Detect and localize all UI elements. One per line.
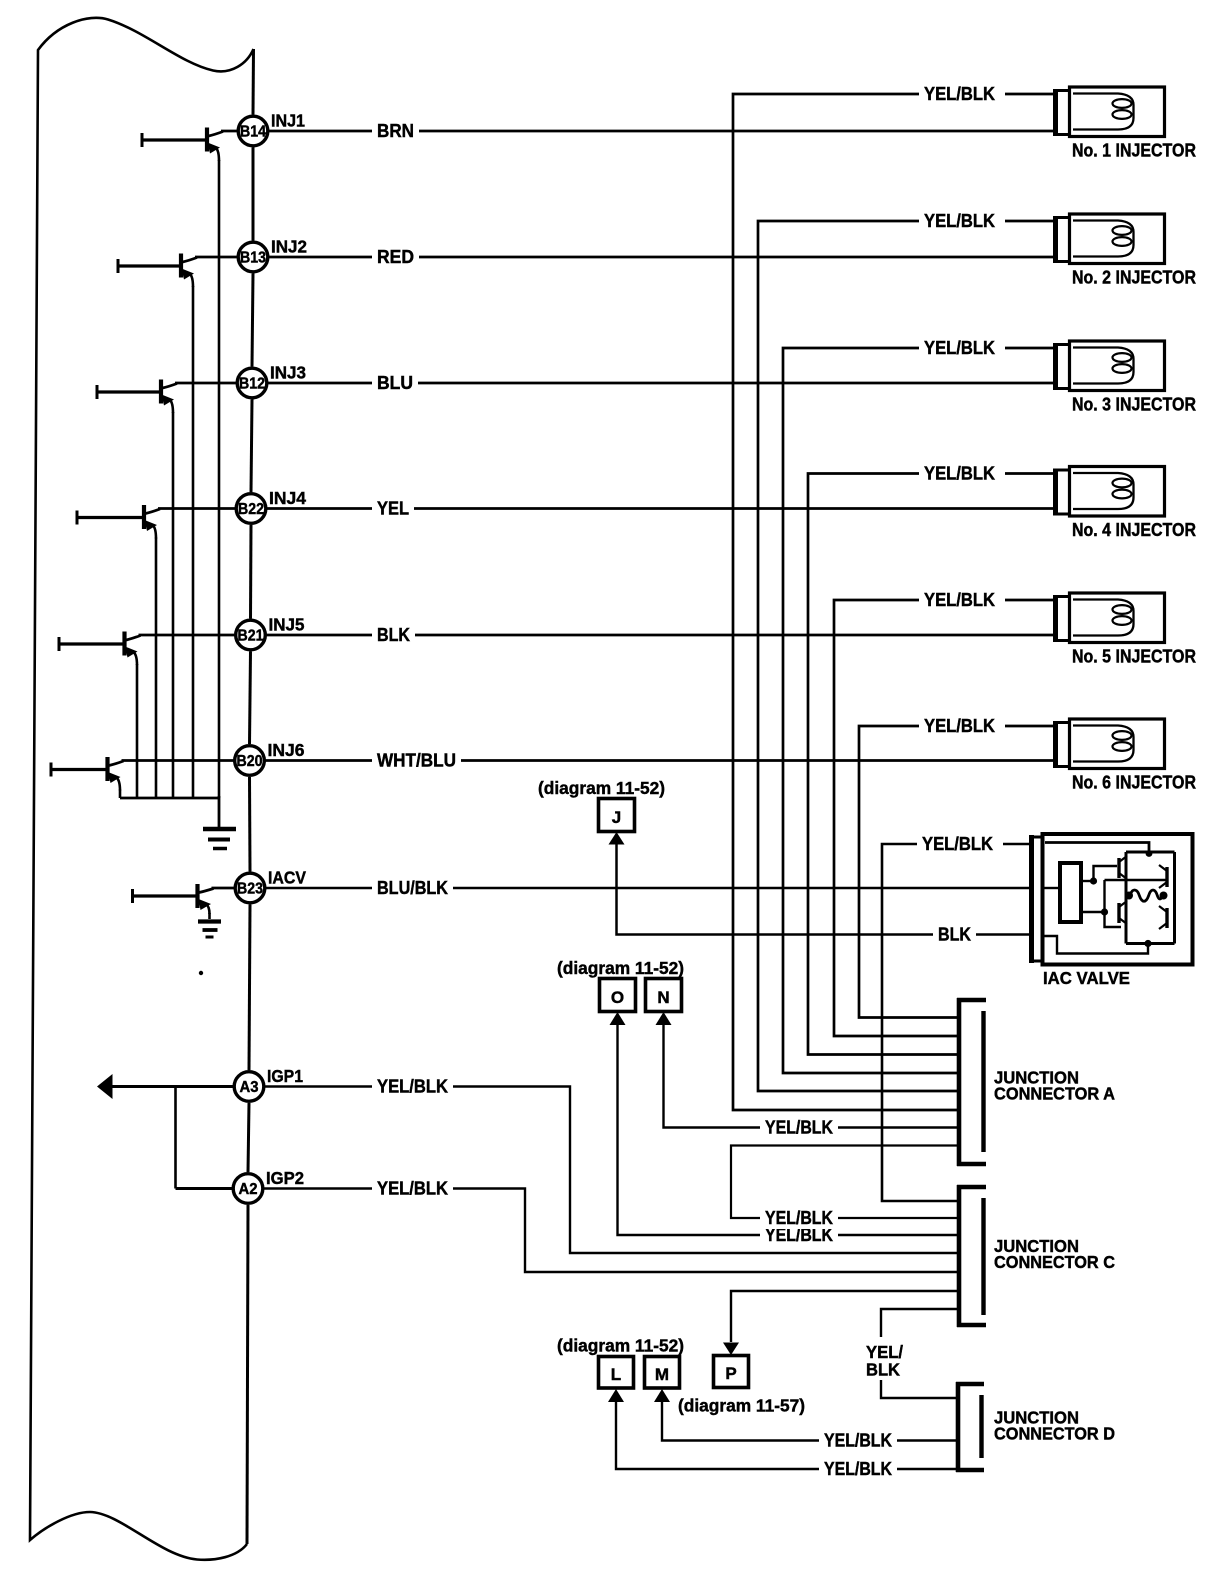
svg-text:RED: RED — [377, 247, 414, 267]
connector ref P (diagram 11-57) — [678, 1343, 805, 1416]
label YEL/BLK — [919, 337, 1005, 359]
svg-text:YEL/BLK: YEL/BLK — [924, 84, 995, 104]
label YEL/BLK — [819, 1430, 897, 1452]
wire — [252, 49, 256, 115]
svg-text:CONNECTOR D: CONNECTOR D — [994, 1424, 1115, 1444]
label YEL/BLK — [919, 83, 1005, 105]
svg-text:YEL: YEL — [377, 499, 409, 519]
svg-text:INJ3: INJ3 — [270, 363, 306, 383]
svg-text:YEL/BLK: YEL/BLK — [824, 1431, 892, 1451]
junction connector D — [956, 1382, 1115, 1472]
wire (emitter to ground bus) — [119, 790, 122, 799]
svg-text:A3: A3 — [240, 1079, 259, 1096]
svg-text:M: M — [655, 1365, 669, 1384]
svg-text:B23: B23 — [237, 881, 263, 898]
label YEL/ BLK (two lines) — [866, 1342, 903, 1380]
junction connector A — [957, 998, 1115, 1166]
wire (ground stem) — [218, 796, 221, 827]
wire to A2 — [176, 1187, 233, 1190]
svg-text:INJ6: INJ6 — [268, 740, 305, 760]
injector No.3 (solenoid symbol) — [1053, 341, 1196, 415]
connector ref J (diagram 11-52) — [538, 778, 665, 845]
wire B13 to No.2 injector (RED) — [269, 256, 1055, 259]
wire (emitter to ground bus) — [172, 412, 175, 798]
transistor Q3 (driver for INJ3) — [97, 380, 177, 414]
label WHT/BLU — [372, 750, 461, 772]
svg-text:(diagram 11-52): (diagram 11-52) — [538, 778, 665, 798]
wire BLK, IAC valve to J — [617, 843, 1031, 935]
pin B12 (INJ3) — [237, 363, 306, 398]
svg-text:(diagram 11-52): (diagram 11-52) — [557, 958, 684, 978]
wire — [252, 274, 253, 367]
label RED — [372, 246, 419, 268]
wire B20 to No.6 injector (WHT/BLU) — [265, 759, 1054, 762]
svg-text:B13: B13 — [240, 250, 266, 267]
transistor Q2 (driver for INJ2) — [118, 254, 197, 288]
wire — [247, 1205, 248, 1544]
pin A3 (IGP1) — [234, 1066, 303, 1101]
wire (collector) — [221, 130, 238, 133]
wire — [252, 148, 255, 241]
connector refs L and M (diagram 11-52) — [557, 1336, 684, 1403]
stray scan dot — [199, 971, 203, 975]
svg-text:BRN: BRN — [377, 121, 414, 141]
wire (collector) — [139, 634, 236, 637]
svg-text:CONNECTOR A: CONNECTOR A — [994, 1084, 1115, 1104]
svg-text:A2: A2 — [239, 1181, 258, 1198]
wire (emitter to ground bus) — [136, 664, 139, 798]
wire IGP1/IGP2 link — [174, 1087, 177, 1189]
wire arrow to A3 — [110, 1085, 234, 1088]
arrow (IGP1 feed, off-page left) — [97, 1074, 113, 1099]
transistor Q7 (driver for IACV) — [133, 884, 214, 914]
pin B23 (IACV) — [235, 868, 306, 903]
svg-text:YEL/BLK: YEL/BLK — [377, 1077, 448, 1097]
svg-text:No. 3 INJECTOR: No. 3 INJECTOR — [1072, 395, 1196, 415]
svg-text:YEL/BLK: YEL/BLK — [924, 590, 995, 610]
wire (Q7 emitter to ground) — [208, 913, 211, 919]
label YEL/BLK — [819, 1458, 897, 1480]
wire junction connector A to junction connector C (YEL/BLK) — [731, 1146, 957, 1219]
pin B22 (INJ4) — [236, 488, 306, 523]
wire — [248, 1103, 249, 1172]
svg-text:YEL/BLK: YEL/BLK — [924, 716, 995, 736]
wire — [248, 777, 252, 872]
wire B22 to No.4 injector (YEL) — [267, 507, 1055, 510]
label BRN — [372, 120, 419, 142]
svg-text:YEL/BLK: YEL/BLK — [377, 1179, 448, 1199]
svg-text:IACV: IACV — [268, 868, 306, 888]
wire A3 YEL/BLK to junction connector C — [265, 1087, 958, 1254]
svg-text:YEL/BLK: YEL/BLK — [922, 834, 993, 854]
svg-text:YEL/BLK: YEL/BLK — [765, 1118, 833, 1138]
svg-text:BLU/BLK: BLU/BLK — [377, 878, 448, 898]
svg-text:BLK: BLK — [377, 625, 410, 645]
injector No.2 (solenoid symbol) — [1053, 214, 1196, 288]
wire L to junction connector D (YEL/BLK) — [616, 1400, 956, 1469]
svg-text:IAC VALVE: IAC VALVE — [1043, 968, 1130, 988]
wire (collector) — [158, 507, 236, 510]
svg-text:L: L — [611, 1365, 621, 1384]
svg-text:(diagram 11-52): (diagram 11-52) — [557, 1336, 684, 1356]
injector No.1 (solenoid symbol) — [1053, 87, 1196, 161]
label BLU/BLK — [372, 877, 453, 899]
svg-text:P: P — [725, 1364, 736, 1383]
transistor Q5 (driver for INJ5) — [59, 632, 141, 666]
svg-text:WHT/BLU: WHT/BLU — [377, 751, 456, 771]
svg-text:CONNECTOR C: CONNECTOR C — [994, 1252, 1115, 1272]
svg-text:INJ4: INJ4 — [269, 488, 306, 508]
svg-text:N: N — [657, 988, 669, 1007]
pin B21 (INJ5) — [236, 615, 305, 650]
label YEL/BLK — [760, 1224, 838, 1246]
svg-text:(diagram 11-57): (diagram 11-57) — [678, 1396, 805, 1416]
svg-text:BLK: BLK — [866, 1360, 900, 1380]
svg-text:YEL/BLK: YEL/BLK — [924, 338, 995, 358]
svg-text:B12: B12 — [239, 376, 265, 393]
svg-text:J: J — [612, 808, 621, 827]
svg-text:B22: B22 — [238, 501, 264, 518]
wire — [250, 652, 251, 745]
wire A2 YEL/BLK to junction connector C — [264, 1189, 958, 1273]
wire YEL/BLK, IAC valve to junction connector C — [882, 844, 1030, 1201]
label YEL/BLK — [919, 715, 1005, 737]
wire B14 to No.1 injector (BRN) — [269, 130, 1055, 133]
label BLK — [933, 924, 976, 946]
wire (emitter to ground bus) — [192, 286, 195, 798]
label YEL — [372, 498, 414, 520]
label YEL/BLK — [372, 1178, 453, 1200]
label YEL/BLK — [919, 210, 1005, 232]
wire M to junction connector D (YEL/BLK) — [662, 1400, 956, 1441]
pin A2 (IGP2) — [233, 1168, 304, 1203]
wire YEL/BLK No.4 injector to junction connector A — [808, 474, 1054, 1055]
svg-text:BLK: BLK — [938, 925, 971, 945]
label YEL/BLK — [372, 1076, 453, 1098]
label BLU — [372, 372, 418, 394]
label BLK — [372, 624, 415, 646]
svg-text:B21: B21 — [238, 628, 264, 645]
transistor Q4 (driver for INJ4) — [77, 505, 160, 539]
wire YEL/BLK No.5 injector to junction connector A — [834, 600, 1054, 1036]
wire (collector) — [195, 256, 238, 259]
label YEL/BLK — [760, 1207, 838, 1229]
injector No.6 (solenoid symbol) — [1053, 719, 1196, 793]
wire — [249, 525, 253, 619]
wire YEL/BLK No.6 injector to junction connector A — [859, 726, 1054, 1018]
label YEL/BLK — [919, 463, 1005, 485]
svg-text:INJ5: INJ5 — [269, 615, 305, 635]
wire (Q7 collector) — [212, 887, 235, 890]
svg-text:YEL/BLK: YEL/BLK — [765, 1208, 833, 1228]
svg-text:O: O — [611, 988, 624, 1007]
wire — [251, 400, 252, 493]
wire (common emitter trunk) — [120, 797, 219, 800]
wire (collector) — [175, 382, 237, 385]
svg-text:BLU: BLU — [377, 373, 413, 393]
wire junction connector C to junction connector D (YEL/BLK) — [881, 1309, 957, 1398]
wire (emitter to ground bus) — [155, 538, 158, 799]
pin B20 (INJ6) — [235, 740, 305, 775]
wire B12 to No.3 injector (BLU) — [268, 382, 1055, 385]
svg-text:B20: B20 — [237, 753, 263, 770]
wire — [249, 905, 250, 1071]
pin B13 (INJ2) — [238, 237, 307, 272]
pin B14 (INJ1) — [238, 111, 305, 146]
svg-text:No. 2 INJECTOR: No. 2 INJECTOR — [1072, 268, 1196, 288]
wire O to junction connector C (YEL/BLK) — [618, 1023, 958, 1235]
svg-text:No. 6 INJECTOR: No. 6 INJECTOR — [1072, 773, 1196, 793]
label YEL/BLK — [919, 589, 1005, 611]
svg-text:YEL/BLK: YEL/BLK — [924, 211, 995, 231]
ECM module torn-edge outline — [30, 18, 254, 1560]
junction connector C — [957, 1185, 1115, 1327]
wire junction connector C to P — [731, 1291, 957, 1342]
ground (main) — [203, 829, 236, 849]
svg-text:IGP1: IGP1 — [267, 1066, 303, 1086]
label YEL/BLK — [917, 833, 1003, 855]
injector No.5 (solenoid symbol) — [1053, 593, 1196, 667]
wire B23 to IAC valve (BLU/BLK) — [266, 887, 1031, 889]
wire YEL/BLK No.3 injector to junction connector A — [783, 348, 1054, 1073]
wire (collector) — [122, 759, 235, 762]
IAC VALVE — [1029, 834, 1193, 988]
svg-text:No. 5 INJECTOR: No. 5 INJECTOR — [1072, 647, 1196, 667]
transistor Q1 (driver for INJ1) — [142, 128, 223, 162]
connector refs O and N (diagram 11-52) — [557, 958, 684, 1025]
ground (IACV driver) — [198, 922, 221, 938]
wire N to junction connector A (YEL/BLK) — [664, 1023, 958, 1128]
injector No.4 (solenoid symbol) — [1053, 467, 1196, 541]
svg-text:YEL/BLK: YEL/BLK — [824, 1459, 892, 1479]
label YEL/BLK — [760, 1117, 838, 1139]
svg-text:No. 1 INJECTOR: No. 1 INJECTOR — [1072, 141, 1196, 161]
wire YEL/BLK No.2 injector to junction connector A — [758, 221, 1054, 1091]
svg-text:IGP2: IGP2 — [266, 1168, 304, 1188]
svg-text:INJ2: INJ2 — [271, 237, 307, 257]
wire B21 to No.5 injector (BLK) — [266, 634, 1054, 637]
wire (emitter to ground bus) — [218, 160, 221, 798]
svg-text:YEL/BLK: YEL/BLK — [924, 464, 995, 484]
svg-text:INJ1: INJ1 — [271, 111, 305, 131]
svg-text:B14: B14 — [240, 124, 266, 141]
svg-text:No. 4 INJECTOR: No. 4 INJECTOR — [1072, 520, 1196, 540]
wire YEL/BLK No.1 injector to junction connector A — [733, 94, 1054, 1110]
transistor Q6 (driver for INJ6) — [51, 757, 124, 791]
